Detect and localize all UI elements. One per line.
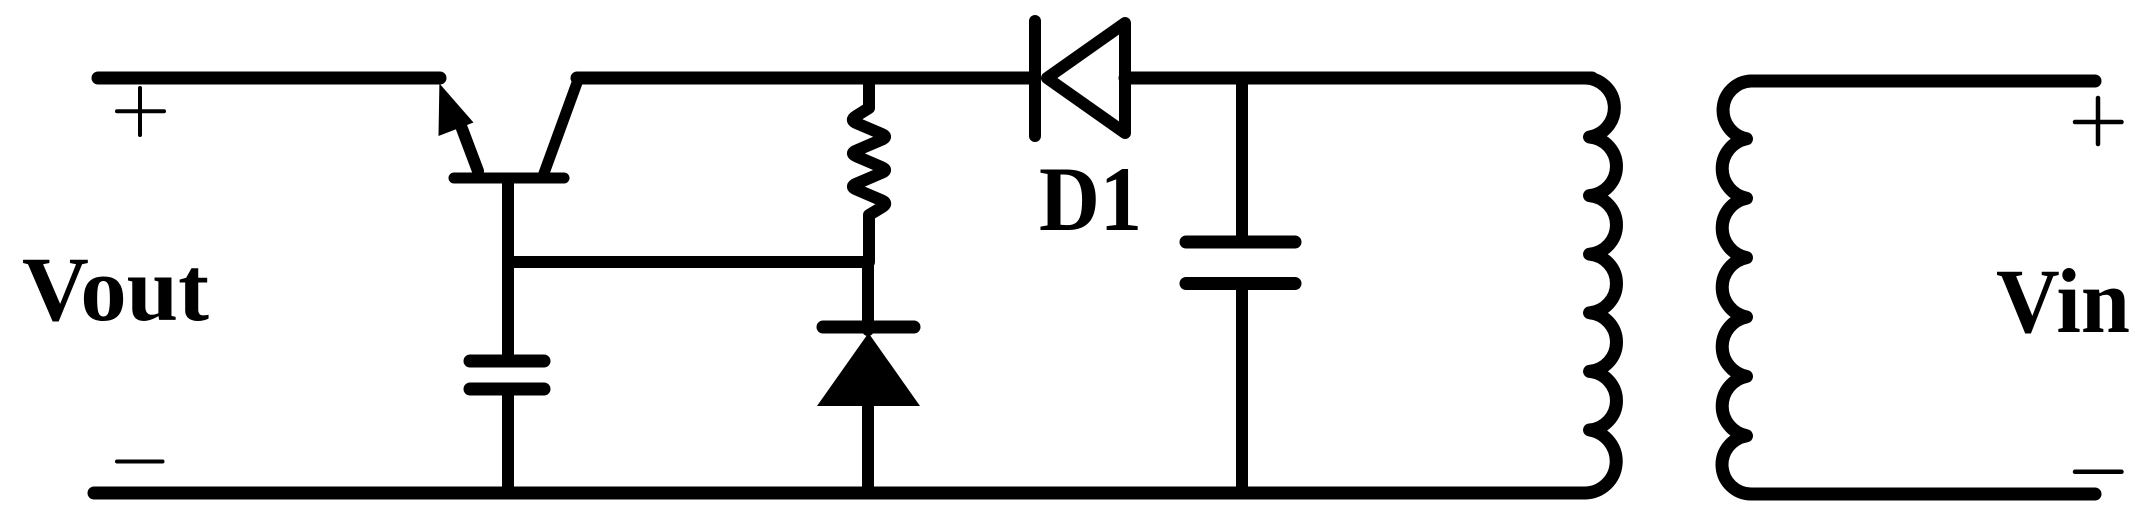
wire C2 bottom lead <box>1236 288 1248 490</box>
capacitor C1 plate bottom <box>470 383 544 396</box>
wire C1 to bottom rail <box>502 392 514 490</box>
svg-text:D1: D1 <box>1039 148 1142 250</box>
wire base branch horizontal <box>508 256 868 268</box>
diode D1 cathode bar <box>1029 21 1041 136</box>
svg-text:Vin: Vin <box>1996 250 2130 352</box>
resistor R1 <box>853 82 885 262</box>
minus sign Vout <box>117 460 163 464</box>
transistor Q1 collector <box>543 80 578 176</box>
transistor Q1 emitter arrowhead <box>439 84 474 137</box>
diode D1 triangle <box>1047 23 1125 133</box>
diode D2 cathode bar <box>823 321 914 334</box>
capacitor C2 plate top <box>1186 236 1295 249</box>
wire C2 top lead <box>1236 80 1248 236</box>
plus sign Vout <box>117 88 164 135</box>
wire top-right rail <box>1751 75 2095 88</box>
wire base vertical upper <box>502 180 514 358</box>
inductor L2 primary winding <box>1722 81 1751 494</box>
capacitor C1 plate top <box>470 355 544 368</box>
wire resistor to diode D2 <box>862 262 874 330</box>
inductor L1 secondary winding <box>1585 78 1616 493</box>
transistor Q1 emitter <box>458 118 478 171</box>
wire bottom-right rail <box>1751 488 2095 501</box>
wire top-middle rail (collector to D1) <box>577 72 1029 85</box>
diode D2 triangle <box>817 333 920 406</box>
wire bottom rail <box>94 487 1585 500</box>
svg-text:Vout: Vout <box>22 238 209 340</box>
wire D2 to bottom rail <box>862 400 874 490</box>
plus sign Vin <box>2075 98 2122 144</box>
wire D1 to coil L1 <box>1125 72 1592 85</box>
minus sign Vin <box>2075 470 2122 475</box>
transistor Q1 base bar <box>454 173 564 184</box>
capacitor C2 plate bottom <box>1186 277 1295 290</box>
wire top-left rail <box>98 72 440 85</box>
